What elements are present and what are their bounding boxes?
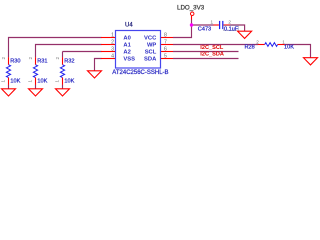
- svg-text:5: 5: [164, 54, 167, 60]
- resistor R31 body: [33, 57, 37, 85]
- wire R28 right to ground: [285, 45, 311, 58]
- svg-text:U4: U4: [125, 23, 133, 29]
- svg-text:R30: R30: [10, 59, 20, 65]
- svg-text:10K: 10K: [284, 45, 294, 51]
- svg-text:2: 2: [256, 40, 259, 45]
- svg-text:SCL: SCL: [145, 50, 157, 56]
- svg-text:10K: 10K: [10, 78, 20, 84]
- pin stub U4 pin 7: [161, 44, 174, 46]
- svg-text:A1: A1: [123, 43, 131, 49]
- svg-text:6: 6: [164, 47, 167, 53]
- wire net A1: horizontal from R31 to pin 2: [36, 45, 102, 58]
- svg-text:R32: R32: [64, 59, 74, 65]
- wire R32 bottom to ground: [62, 85, 64, 89]
- C473 value box: [223, 26, 238, 31]
- svg-text:2: 2: [55, 57, 60, 60]
- pin stub U4 pin 3: [101, 51, 116, 53]
- capacitor C473 body: [214, 21, 231, 29]
- resistor R32 body: [60, 57, 64, 85]
- wire R30 bottom to ground: [8, 85, 10, 89]
- svg-text:8: 8: [164, 33, 167, 39]
- svg-text:A2: A2: [123, 50, 130, 56]
- svg-text:WP: WP: [147, 43, 156, 49]
- pin stub U4 pin 8: [161, 37, 174, 39]
- wire net WP to R28: [173, 44, 258, 46]
- svg-text:LDO_3V3: LDO_3V3: [177, 4, 205, 11]
- svg-text:4: 4: [111, 54, 114, 60]
- ground under R31: [29, 89, 43, 96]
- svg-text:2: 2: [1, 57, 6, 60]
- wire capacitor right to ground: [230, 25, 245, 31]
- resistor R28 body: [258, 43, 285, 47]
- svg-text:2: 2: [28, 57, 33, 60]
- svg-text:10K: 10K: [37, 78, 47, 84]
- ground under R32: [56, 89, 70, 96]
- ground under VSS: [88, 71, 102, 78]
- wire net A0: horizontal from R30 to pin 1: [9, 38, 102, 58]
- svg-text:1: 1: [211, 19, 214, 24]
- svg-text:1: 1: [1, 80, 6, 83]
- wire R31 bottom to ground: [35, 85, 37, 89]
- wire net VSS to ground: [95, 59, 102, 72]
- pin stub U4 pin 5: [161, 58, 174, 60]
- svg-text:2: 2: [111, 40, 114, 46]
- wire net I2C_SCL: [173, 51, 239, 53]
- svg-text:R31: R31: [37, 59, 47, 65]
- svg-text:AT24C256C-SSHL-B: AT24C256C-SSHL-B: [112, 70, 168, 76]
- ground under R30: [2, 89, 16, 96]
- ground under C473: [238, 31, 252, 38]
- wire net I2C_SDA: [173, 58, 239, 60]
- svg-text:R28: R28: [245, 45, 255, 51]
- svg-text:C473: C473: [198, 27, 211, 33]
- pin stub U4 pin 6: [161, 51, 174, 53]
- svg-text:7: 7: [164, 40, 167, 46]
- svg-text:1: 1: [282, 40, 285, 45]
- svg-text:10K: 10K: [64, 78, 74, 84]
- svg-text:VSS: VSS: [123, 57, 135, 63]
- svg-text:1: 1: [111, 33, 114, 39]
- junction dot: [190, 23, 193, 26]
- pin stub U4 pin 1: [101, 37, 116, 39]
- pin stub U4 pin 2: [101, 44, 116, 46]
- svg-text:0.1uF: 0.1uF: [224, 27, 239, 33]
- svg-text:1: 1: [55, 80, 60, 83]
- pin stub U4 pin 4: [101, 58, 116, 60]
- svg-text:SDA: SDA: [144, 57, 157, 63]
- svg-text:3: 3: [111, 47, 114, 53]
- wire net A2: horizontal from R32 to pin 3: [62, 52, 64, 58]
- wire power junction to capacitor: [192, 24, 214, 26]
- resistor R30 body: [6, 57, 10, 85]
- IC U4 body: [116, 31, 161, 69]
- power symbol LDO_3V3: [177, 4, 205, 19]
- svg-text:1: 1: [28, 80, 33, 83]
- svg-text:I2C_SCL: I2C_SCL: [200, 45, 224, 51]
- wire net VCC riser to power junction: [173, 20, 192, 38]
- svg-text:VCC: VCC: [144, 36, 157, 42]
- svg-text:I2C_SDA: I2C_SDA: [200, 52, 224, 58]
- svg-text:2: 2: [228, 19, 231, 24]
- svg-text:A0: A0: [123, 36, 130, 42]
- ground under R28: [304, 58, 318, 65]
